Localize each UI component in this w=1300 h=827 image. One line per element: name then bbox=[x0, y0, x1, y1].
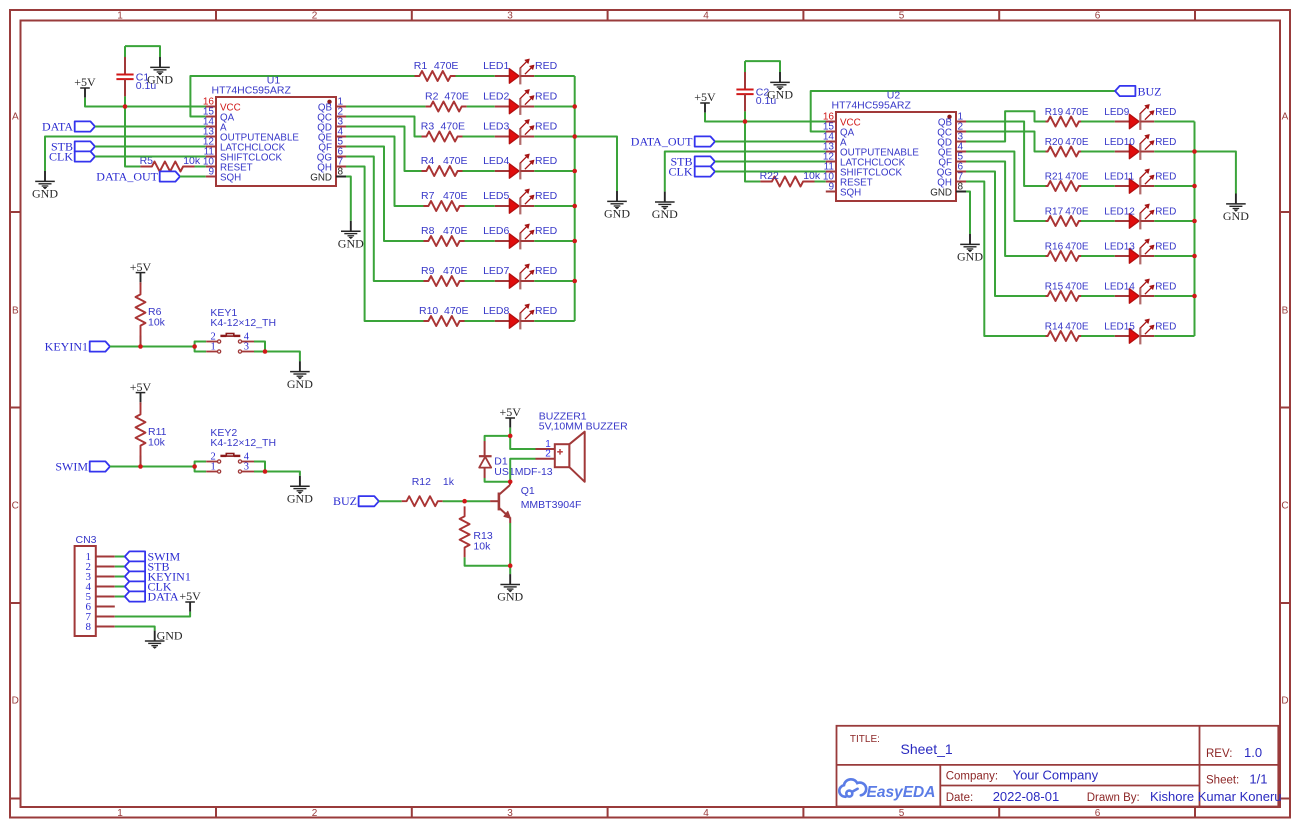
svg-text:SQH: SQH bbox=[220, 173, 241, 184]
wire U1 pin to LED8 row bbox=[346, 167, 424, 322]
svg-text:8: 8 bbox=[958, 182, 964, 193]
svg-text:LED15: LED15 bbox=[1104, 322, 1135, 333]
connector CN3 body bbox=[75, 546, 96, 636]
U1 pin 9 SQH bbox=[206, 167, 241, 184]
LED LED13 RED bbox=[1115, 239, 1155, 265]
LED LED10 RED bbox=[1115, 134, 1155, 160]
U1 pin 3 QD bbox=[317, 117, 346, 134]
resistor R5 10k bbox=[140, 162, 194, 172]
LED LED7 RED bbox=[495, 264, 535, 290]
transistor Q1 MMBT3904F bbox=[490, 482, 510, 523]
svg-text:R20: R20 bbox=[1045, 137, 1064, 148]
wire R22 to U2 RESET pin 10 bbox=[815, 181, 826, 183]
svg-text:GND: GND bbox=[338, 236, 364, 250]
buzzer BUZZER1 pin 2 lead bbox=[536, 458, 555, 460]
wire U2 pin to LED12 row bbox=[966, 152, 1046, 222]
wire U2 pin to LED15 row bbox=[966, 182, 1046, 337]
svg-text:B: B bbox=[12, 306, 19, 317]
net flag STB (CN3) bbox=[125, 561, 145, 571]
wire CN3 pin 8 to ground bbox=[115, 627, 155, 631]
svg-text:470E: 470E bbox=[441, 121, 466, 133]
svg-text:Drawn By:: Drawn By: bbox=[1087, 792, 1140, 804]
resistor R11 10k (pull-up) bbox=[136, 402, 146, 466]
resistor R8 470E bbox=[424, 236, 465, 246]
svg-text:LED10: LED10 bbox=[1104, 137, 1135, 148]
svg-text:GND: GND bbox=[604, 207, 630, 221]
svg-text:470E: 470E bbox=[443, 225, 468, 237]
svg-text:Q1: Q1 bbox=[521, 485, 535, 497]
resistor R10 470E bbox=[424, 316, 465, 326]
op-amp-style IC body U1 HT74HC595ARZ bbox=[216, 97, 336, 186]
U2 pin 2 QC bbox=[937, 122, 966, 139]
svg-text:+5V: +5V bbox=[130, 260, 152, 274]
svg-text:R4: R4 bbox=[421, 155, 435, 167]
svg-text:A: A bbox=[1282, 112, 1289, 123]
ground GND (U1 pin13) bbox=[32, 171, 58, 201]
wire LED cathode bus (left) bbox=[574, 76, 576, 321]
wire U1 pin to LED7 row bbox=[346, 157, 424, 282]
power symbol +5V (U1 rail) bbox=[74, 75, 96, 98]
svg-text:K4-12×12_TH: K4-12×12_TH bbox=[210, 317, 276, 329]
svg-text:TITLE:: TITLE: bbox=[850, 734, 880, 745]
svg-text:3: 3 bbox=[507, 10, 513, 21]
title block outline bbox=[837, 726, 1279, 807]
U2 pin 11 SHIFTCLOCK bbox=[824, 162, 903, 179]
U2 pin 3 QD bbox=[937, 132, 966, 149]
wire cathode bus to ground (left) bbox=[575, 137, 617, 192]
frame column ticks top bbox=[215, 10, 217, 21]
wire U2 pin 13 OUTPUTENABLE to ground bbox=[665, 152, 826, 192]
U2 pin 6 QG bbox=[937, 162, 966, 179]
svg-text:8: 8 bbox=[86, 621, 92, 633]
svg-text:BUZ: BUZ bbox=[333, 494, 357, 508]
resistor R1 470E bbox=[415, 71, 456, 81]
ground GND (CN3) bbox=[145, 629, 183, 649]
ground GND (C2) bbox=[767, 72, 793, 102]
svg-text:6: 6 bbox=[1095, 10, 1101, 21]
ground GND (KEY1) bbox=[287, 361, 313, 391]
ground GND (U2 pin8) bbox=[957, 234, 983, 264]
wire U1 pin to LED5 row bbox=[346, 137, 424, 207]
resistor R9 470E bbox=[424, 276, 465, 286]
svg-text:CN3: CN3 bbox=[76, 534, 97, 546]
CN3 pin 8 bbox=[86, 621, 115, 633]
wire LED11 cathode to bus bbox=[1154, 185, 1194, 187]
wire R3 to LED3 bbox=[463, 136, 495, 138]
resistor R17 470E bbox=[1046, 216, 1082, 226]
svg-text:Sheet:: Sheet: bbox=[1206, 775, 1239, 787]
LED LED5 RED bbox=[495, 189, 535, 215]
svg-text:470E: 470E bbox=[443, 155, 468, 167]
wire LED3 cathode to bus bbox=[534, 136, 574, 138]
svg-text:RED: RED bbox=[1155, 137, 1176, 148]
U2 pin 13 OUTPUTENABLE bbox=[823, 142, 920, 159]
wire R10 to LED8 bbox=[465, 320, 495, 322]
ground GND (KEY2) bbox=[287, 476, 313, 506]
svg-text:Sheet_1: Sheet_1 bbox=[901, 741, 953, 757]
svg-text:1.0: 1.0 bbox=[1244, 745, 1262, 760]
svg-text:4: 4 bbox=[703, 10, 709, 21]
LED LED8 RED bbox=[495, 304, 535, 330]
resistor R13 10k bbox=[460, 501, 470, 557]
wire R1 to LED1 bbox=[456, 75, 495, 77]
svg-text:K4-12×12_TH: K4-12×12_TH bbox=[210, 437, 276, 449]
wire CN3 pin 2 to flag bbox=[115, 566, 125, 568]
U2 pin 7 QH bbox=[937, 172, 966, 189]
power symbol +5V (R11) bbox=[130, 380, 152, 403]
svg-text:BUZ: BUZ bbox=[1138, 84, 1162, 98]
svg-text:GND: GND bbox=[310, 173, 332, 184]
svg-text:1: 1 bbox=[211, 342, 216, 353]
wire U1 pin to LED3 row bbox=[346, 117, 422, 137]
svg-text:5: 5 bbox=[899, 808, 905, 819]
LED LED15 RED bbox=[1115, 319, 1155, 345]
svg-text:LED1: LED1 bbox=[483, 60, 509, 72]
U2 pin 4 QE bbox=[938, 142, 966, 159]
svg-text:6: 6 bbox=[1095, 808, 1101, 819]
ground GND (left LED bus) bbox=[604, 191, 630, 221]
wire KEYIN1 to KEY1 bbox=[110, 346, 195, 348]
wire +5V to U1 VCC pin 16 bbox=[85, 98, 206, 107]
svg-text:C: C bbox=[12, 501, 19, 512]
U1 pin 16 VCC bbox=[203, 97, 241, 114]
svg-text:D: D bbox=[12, 696, 19, 707]
svg-text:4: 4 bbox=[703, 808, 709, 819]
wire LED14 cathode to bus bbox=[1154, 295, 1194, 297]
svg-text:R7: R7 bbox=[421, 190, 435, 202]
wire R7 to LED5 bbox=[465, 205, 495, 207]
wire LED5 cathode to bus bbox=[534, 205, 574, 207]
net flag DATA bbox=[75, 121, 95, 131]
resistor R14 470E bbox=[1046, 331, 1082, 341]
svg-text:DATA_OUT: DATA_OUT bbox=[631, 134, 693, 148]
wire U1 pin to LED2 row bbox=[346, 106, 426, 108]
resistor R4 470E bbox=[422, 166, 463, 176]
CN3 pin 7 bbox=[86, 611, 115, 623]
wire LED cathode bus (right) bbox=[1194, 122, 1196, 337]
svg-text:1: 1 bbox=[211, 462, 216, 473]
svg-text:2: 2 bbox=[312, 10, 318, 21]
U2 orientation dot bbox=[947, 115, 951, 119]
svg-text:3: 3 bbox=[507, 808, 513, 819]
ground GND (buzzer) bbox=[497, 574, 523, 604]
wire U2 QA pin 15 up to BUZ flag bbox=[811, 91, 1115, 132]
resistor R20 470E bbox=[1046, 147, 1082, 157]
svg-text:2022-08-01: 2022-08-01 bbox=[993, 789, 1059, 804]
wire U1 pin to LED6 row bbox=[346, 147, 424, 242]
resistor R6 10k (pull-up) bbox=[136, 282, 146, 346]
svg-text:470E: 470E bbox=[444, 91, 469, 103]
resistor R16 470E bbox=[1046, 251, 1082, 261]
svg-text:RED: RED bbox=[535, 305, 558, 317]
wire CN3 pin 7 to +5V bbox=[115, 612, 190, 617]
CN3 pin 6 bbox=[86, 601, 115, 613]
U2 pin 1 QB bbox=[938, 112, 966, 129]
svg-text:Date:: Date: bbox=[946, 792, 974, 804]
LED LED12 RED bbox=[1115, 204, 1155, 230]
svg-text:R15: R15 bbox=[1045, 282, 1064, 293]
wire R17 to LED12 bbox=[1081, 220, 1115, 222]
capacitor C1 bbox=[116, 46, 160, 106]
svg-text:+5V: +5V bbox=[694, 90, 716, 104]
svg-text:R17: R17 bbox=[1045, 207, 1064, 218]
power symbol +5V (buzzer) bbox=[499, 405, 521, 428]
svg-text:1k: 1k bbox=[443, 476, 455, 488]
U1 pin 14 A bbox=[203, 117, 227, 134]
U1 pin 15 QA bbox=[203, 107, 235, 124]
svg-text:CLK: CLK bbox=[669, 164, 693, 178]
op-amp-style IC body U2 HT74HC595ARZ bbox=[836, 112, 956, 201]
svg-text:470E: 470E bbox=[443, 265, 468, 277]
wire LED4 cathode to bus bbox=[534, 170, 574, 172]
svg-text:RED: RED bbox=[535, 60, 558, 72]
svg-text:8: 8 bbox=[338, 167, 344, 178]
wire R16 to LED13 bbox=[1081, 255, 1115, 257]
svg-text:Kishore Kumar Koneru: Kishore Kumar Koneru bbox=[1150, 789, 1282, 804]
resistor R2 470E bbox=[426, 102, 467, 112]
net flag DATA_OUT bbox=[160, 171, 180, 181]
svg-text:LED7: LED7 bbox=[483, 265, 509, 277]
U1 pin 11 SHIFTCLOCK bbox=[204, 147, 283, 164]
svg-text:+5V: +5V bbox=[499, 405, 521, 419]
net flag CLK (CN3) bbox=[125, 581, 145, 591]
U1 pin 13 OUTPUTENABLE bbox=[203, 127, 300, 144]
U1 pin 5 QF bbox=[318, 137, 346, 154]
net flag DATA_OUT (U2 input) bbox=[695, 136, 715, 146]
svg-text:EasyEDA: EasyEDA bbox=[867, 784, 936, 801]
net flag DATA (CN3) bbox=[125, 591, 145, 601]
svg-text:RED: RED bbox=[535, 265, 558, 277]
resistor R19 470E bbox=[1046, 117, 1082, 127]
LED LED1 RED bbox=[495, 59, 535, 85]
wire LED1 cathode to bus bbox=[534, 75, 574, 77]
wire U1 pin 13 OUTPUTENABLE to ground bbox=[45, 137, 206, 172]
svg-text:10k: 10k bbox=[148, 317, 166, 329]
svg-text:R3: R3 bbox=[421, 121, 435, 133]
svg-text:+5V: +5V bbox=[130, 380, 152, 394]
svg-text:R1: R1 bbox=[414, 60, 428, 72]
wire R12 to Q1 base bbox=[443, 500, 490, 502]
svg-text:5V,10MM BUZZER: 5V,10MM BUZZER bbox=[539, 420, 628, 432]
wire LED9 cathode to bus bbox=[1154, 121, 1194, 123]
svg-text:LED3: LED3 bbox=[483, 121, 509, 133]
wire LED15 cathode to bus bbox=[1154, 335, 1194, 337]
LED LED9 RED bbox=[1115, 104, 1155, 129]
net flag BUZ (output to buzzer) bbox=[1115, 86, 1135, 96]
wire U2 pin to LED11 row bbox=[966, 122, 1046, 187]
svg-text:9: 9 bbox=[828, 182, 834, 193]
ground GND (C1) bbox=[147, 57, 173, 87]
frame column ticks bottom bbox=[215, 807, 217, 818]
U1 orientation dot bbox=[327, 100, 331, 104]
svg-text:GND: GND bbox=[287, 377, 313, 391]
wire D1 bottom to node B bbox=[485, 478, 511, 482]
wire CN3 pin 1 to flag bbox=[115, 556, 125, 558]
svg-text:3: 3 bbox=[244, 462, 249, 473]
wire buzzer pin 2 to node B bbox=[510, 459, 535, 482]
svg-text:470E: 470E bbox=[443, 190, 468, 202]
CN3 pin 5 bbox=[86, 591, 115, 603]
svg-text:DATA: DATA bbox=[148, 590, 179, 604]
CN3 pin 3 bbox=[86, 571, 115, 583]
svg-text:SWIM: SWIM bbox=[55, 460, 88, 474]
resistor R3 470E bbox=[422, 132, 463, 142]
net flag KEYIN1 (CN3) bbox=[125, 571, 145, 581]
wire R20 to LED10 bbox=[1081, 151, 1115, 153]
wire DATA to U1 pin 14 bbox=[95, 126, 206, 128]
U2 pin 5 QF bbox=[938, 152, 966, 169]
CN3 pin 1 bbox=[86, 551, 115, 563]
wire U2 pin to LED13 row bbox=[966, 162, 1046, 257]
svg-text:LED11: LED11 bbox=[1104, 172, 1134, 183]
wire C2 node down to R22 bbox=[745, 122, 760, 182]
buzzer BUZZER1 5V,10MM BUZZER symbol bbox=[555, 432, 585, 482]
svg-text:RED: RED bbox=[1155, 107, 1176, 118]
svg-text:+5V: +5V bbox=[74, 75, 96, 89]
U2 pin 12 LATCHCLOCK bbox=[823, 152, 906, 169]
U1 pin 2 QC bbox=[317, 107, 346, 124]
svg-text:GND: GND bbox=[930, 188, 952, 199]
net flag CLK bbox=[75, 151, 95, 161]
svg-text:10k: 10k bbox=[148, 437, 166, 449]
svg-text:3: 3 bbox=[244, 342, 249, 353]
svg-text:D: D bbox=[1281, 696, 1288, 707]
U2 pin 8 GND bbox=[930, 182, 966, 199]
svg-text:470E: 470E bbox=[1065, 107, 1089, 118]
U1 pin 6 QG bbox=[317, 147, 346, 164]
push button KEY1 K4-12x12_TH bbox=[195, 334, 254, 354]
resistor R12 1k bbox=[402, 496, 443, 506]
diode D1 US1MDF-13 bbox=[479, 441, 492, 478]
svg-text:US1MDF-13: US1MDF-13 bbox=[494, 466, 553, 478]
svg-text:GND: GND bbox=[497, 590, 523, 604]
wire SWIM to KEY2 bbox=[110, 466, 195, 468]
wire U2 pin to LED14 row bbox=[966, 172, 1046, 297]
svg-text:R12: R12 bbox=[412, 476, 431, 488]
wire LED12 cathode to bus bbox=[1154, 220, 1194, 222]
svg-text:DATA: DATA bbox=[42, 119, 73, 133]
wire R15 to LED14 bbox=[1081, 295, 1115, 297]
CN3 pin 2 bbox=[86, 561, 115, 573]
wire CN3 pin 3 to flag bbox=[115, 576, 125, 578]
wire U1 GND pin 8 to ground bbox=[346, 177, 351, 221]
U2 pin 16 VCC bbox=[823, 112, 861, 129]
LED LED14 RED bbox=[1115, 279, 1155, 305]
svg-text:470E: 470E bbox=[444, 305, 469, 317]
svg-text:LED5: LED5 bbox=[483, 190, 509, 202]
svg-text:CLK: CLK bbox=[49, 149, 73, 163]
svg-text:HT74HC595ARZ: HT74HC595ARZ bbox=[212, 85, 292, 97]
LED LED6 RED bbox=[495, 224, 535, 250]
svg-text:LED12: LED12 bbox=[1104, 207, 1135, 218]
svg-text:GND: GND bbox=[767, 88, 793, 102]
wire U2 GND pin 8 to ground bbox=[966, 192, 970, 235]
wire U1 QA pin 15 up to LED1 row bbox=[190, 76, 414, 117]
wire R19 to LED9 bbox=[1081, 121, 1115, 123]
wire R21 to LED11 bbox=[1081, 185, 1115, 187]
wire cathode bus to ground (right) bbox=[1195, 152, 1236, 194]
wire R13 bottom to node C bbox=[465, 557, 511, 565]
wire CN3 pin 5 to flag bbox=[115, 596, 125, 598]
svg-text:470E: 470E bbox=[1065, 282, 1089, 293]
wire node A to buzzer pin 1 bbox=[510, 436, 535, 449]
svg-text:RED: RED bbox=[1155, 282, 1176, 293]
svg-text:LED2: LED2 bbox=[483, 91, 509, 103]
frame row ticks left bbox=[10, 211, 21, 213]
net flag STB (U2) bbox=[695, 156, 715, 166]
U1 pin 10 RESET bbox=[203, 157, 253, 174]
U2 pin 10 RESET bbox=[823, 172, 873, 189]
wire LED7 cathode to bus bbox=[534, 280, 574, 282]
wire STB to U1 pin 12 bbox=[95, 146, 206, 148]
wire DATA_OUT to U2 pin 14 bbox=[715, 141, 826, 143]
ground GND (U2 pin13) bbox=[652, 192, 678, 222]
svg-text:RED: RED bbox=[1155, 172, 1176, 183]
wire U2 pin to LED10 row bbox=[966, 132, 1046, 152]
wire KEY1 pins 3/4 to ground bbox=[254, 342, 265, 352]
wire BUZ to R12 bbox=[379, 500, 402, 502]
svg-text:LED6: LED6 bbox=[483, 225, 509, 237]
push button KEY2 K4-12x12_TH bbox=[195, 454, 254, 474]
svg-text:SQH: SQH bbox=[840, 188, 861, 199]
resistor R22 10k bbox=[760, 177, 814, 187]
svg-text:GND: GND bbox=[957, 250, 983, 264]
wire R9 to LED7 bbox=[465, 280, 495, 282]
ground GND (U1 pin8) bbox=[338, 221, 364, 251]
svg-text:Your Company: Your Company bbox=[1013, 768, 1099, 783]
svg-text:R21: R21 bbox=[1045, 172, 1064, 183]
wire CLK to U2 pin 11 bbox=[715, 171, 826, 173]
U1 pin 8 GND bbox=[310, 167, 346, 184]
power symbol +5V (CN3) bbox=[179, 589, 201, 612]
svg-text:R8: R8 bbox=[421, 225, 435, 237]
svg-text:+5V: +5V bbox=[179, 589, 201, 603]
svg-text:GND: GND bbox=[287, 491, 313, 505]
wire LED6 cathode to bus bbox=[534, 240, 574, 242]
svg-text:LED9: LED9 bbox=[1104, 107, 1129, 118]
ground GND (right LED bus) bbox=[1223, 194, 1249, 224]
svg-text:RED: RED bbox=[535, 91, 558, 103]
svg-text:470E: 470E bbox=[434, 60, 459, 72]
svg-text:A: A bbox=[12, 112, 19, 123]
svg-text:DATA_OUT: DATA_OUT bbox=[96, 169, 158, 183]
wire R4 to LED4 bbox=[463, 170, 495, 172]
junction dots bbox=[123, 104, 128, 109]
svg-text:LED14: LED14 bbox=[1104, 282, 1135, 293]
wire LED13 cathode to bus bbox=[1154, 255, 1194, 257]
svg-text:RED: RED bbox=[1155, 242, 1176, 253]
svg-text:RED: RED bbox=[535, 155, 558, 167]
svg-text:R10: R10 bbox=[419, 305, 438, 317]
frame row ticks right bbox=[1280, 211, 1290, 213]
wire STB to U2 pin 12 bbox=[715, 161, 826, 163]
svg-text:470E: 470E bbox=[1065, 242, 1089, 253]
net flag CLK (U2) bbox=[695, 166, 715, 176]
svg-text:RED: RED bbox=[535, 190, 558, 202]
wire Q1 emitter to node C bbox=[509, 523, 511, 574]
svg-text:1/1: 1/1 bbox=[1249, 772, 1267, 787]
capacitor C2 bbox=[736, 61, 780, 121]
svg-text:GND: GND bbox=[147, 73, 173, 87]
net flag BUZ (input) bbox=[359, 496, 379, 506]
svg-text:GND: GND bbox=[157, 629, 183, 643]
wire LED2 cathode to bus bbox=[534, 106, 574, 108]
svg-text:9: 9 bbox=[208, 167, 214, 178]
LED LED2 RED bbox=[495, 89, 535, 115]
svg-text:2: 2 bbox=[312, 808, 318, 819]
svg-text:RED: RED bbox=[1155, 207, 1176, 218]
svg-text:R9: R9 bbox=[421, 265, 435, 277]
